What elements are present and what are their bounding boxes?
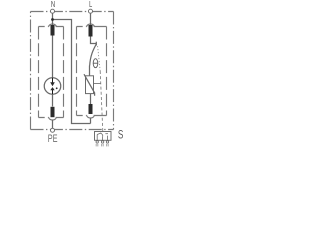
changeover contact inside xyxy=(97,133,108,140)
terminal PE xyxy=(51,128,55,132)
wire N to varistor-bottom (1+1 circuit link) xyxy=(53,20,91,124)
bottom edge with plug contact arc xyxy=(39,117,49,119)
node junction dot on N xyxy=(51,18,54,21)
wire below right contact xyxy=(90,118,92,124)
remote signalling contact S box xyxy=(95,132,112,147)
enclosure outer dash-dot border xyxy=(31,12,114,130)
module box left (spark gap module, dashed) xyxy=(39,24,64,120)
plug contact pin left-bottom xyxy=(51,107,55,117)
wire left branch upper xyxy=(52,36,54,78)
spark gap F1 (gas discharge tube) xyxy=(44,78,61,95)
tiny terminal numbers xyxy=(96,144,109,147)
svg-text:L: L xyxy=(89,0,93,9)
wire left branch lower xyxy=(52,94,54,106)
contact terminals xyxy=(96,141,98,143)
plug contact pin right-top xyxy=(89,25,93,37)
wire N column xyxy=(52,13,54,25)
bottom edge with plug contact arc xyxy=(77,115,87,117)
top edge with plug contact arc xyxy=(39,26,49,28)
terminal L xyxy=(89,9,93,13)
module box right (varistor module, dashed) xyxy=(77,24,107,118)
varistor RV1 xyxy=(84,74,95,96)
svg-text:S: S xyxy=(118,127,124,141)
mechanical linkage to remote contact (dashed) xyxy=(98,46,101,71)
svg-text:PE: PE xyxy=(48,133,58,145)
wire to PE terminal xyxy=(52,120,54,128)
wire below varistor xyxy=(90,94,92,104)
theta thermal symbol xyxy=(93,59,98,68)
wire L column xyxy=(90,13,92,25)
top edge with plug contact arc xyxy=(77,26,87,28)
plug contact pin left-top xyxy=(51,25,55,36)
terminal N xyxy=(51,9,55,13)
plug contact pin right-bottom xyxy=(89,104,93,114)
svg-text:N: N xyxy=(51,0,55,9)
thermal disconnector switch xyxy=(90,37,97,77)
linkage tap from varistor xyxy=(94,83,101,85)
